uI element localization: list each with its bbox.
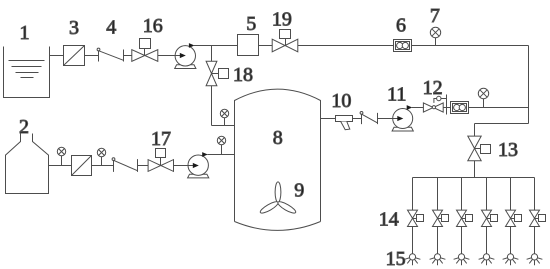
svg-text:3: 3 — [69, 17, 79, 39]
label 11 — [387, 84, 406, 106]
wire tank T8 to strainer 10 — [321, 118, 336, 120]
wire drop 2 upper — [437, 178, 439, 211]
valve 16 (control valve with actuator) — [132, 39, 158, 62]
wire riser elbow to valve 13 — [475, 124, 529, 137]
pump 11 inlet arrow — [393, 116, 404, 121]
wire valve13 to manifold — [474, 161, 476, 178]
label 19 — [272, 9, 292, 31]
label 18 — [233, 64, 253, 86]
wire F3 to check valve V4 — [85, 55, 99, 57]
wire drop 1 upper — [412, 178, 414, 211]
svg-text:15: 15 — [386, 248, 406, 269]
gauge 7 (pressure gauge) — [430, 27, 440, 37]
label 16 — [143, 15, 163, 37]
valve 14-6 (spray branch valve) — [530, 210, 546, 226]
svg-text:1: 1 — [20, 22, 30, 44]
label 6 — [396, 15, 406, 37]
wire drop 4 upper — [486, 178, 488, 211]
label 3 — [69, 17, 79, 39]
gauge GE stem — [483, 98, 485, 107]
liquid level lines in tank T1 — [9, 61, 45, 78]
label 12 — [423, 77, 443, 99]
svg-text:19: 19 — [272, 9, 292, 31]
wire flowmeter to riser — [469, 107, 529, 109]
wire valve18 down to tank T8 — [212, 86, 235, 126]
svg-text:17: 17 — [151, 128, 171, 150]
pump P1 outlet arrow — [189, 43, 195, 48]
svg-text:5: 5 — [246, 13, 256, 35]
svg-text:14: 14 — [379, 209, 399, 231]
wire tank1 to filter F3 — [50, 55, 64, 57]
wire VE to pump 11 — [378, 118, 401, 120]
gauge GA (pressure gauge) — [57, 147, 65, 155]
gauge GE (pressure gauge) — [478, 88, 488, 98]
svg-text:4: 4 — [106, 17, 116, 39]
filter FB (square with diagonal) — [72, 156, 92, 176]
wire drop 6 upper — [534, 178, 536, 211]
stirrer 9 (three-blade impeller) — [259, 182, 297, 215]
svg-text:10: 10 — [331, 90, 351, 112]
filter F3 (square with diagonal) — [64, 46, 85, 66]
valve 17 (control valve with actuator) — [148, 149, 173, 172]
strainer 10 (Y-strainer) — [336, 116, 353, 130]
gauge GA stem — [61, 156, 63, 166]
gauge GC stem — [221, 145, 223, 155]
wire drop 3 lower — [461, 227, 463, 254]
wire drop 5 lower — [510, 227, 512, 254]
wire pump11 to valve 12 — [412, 107, 424, 109]
wire drop 2 lower — [437, 227, 439, 254]
wire VC to valve 17 — [138, 165, 149, 167]
valve 18 (vertical valve with side box) — [206, 61, 228, 86]
svg-text:7: 7 — [430, 5, 440, 27]
label 9 — [294, 180, 304, 202]
valve 12 (valve with pilot loop) — [423, 96, 446, 112]
label 5 — [246, 13, 256, 35]
wire valve19 to flowmeter 6 — [298, 45, 394, 47]
wire strainer10 to check valve VE — [353, 118, 362, 120]
valve 14-5 (spray branch valve) — [506, 210, 522, 226]
nozzle 15-5 (spray nozzle) — [503, 254, 519, 265]
wire tick to flowmeter F2 — [443, 107, 450, 109]
label 13 — [498, 139, 518, 161]
gauge G4 stem — [224, 118, 226, 126]
gauge GB (pressure gauge) — [97, 148, 105, 156]
wire drop 4 lower — [486, 227, 488, 254]
valve 14-1 (spray branch valve) — [408, 210, 424, 226]
valve 14-3 (spray branch valve) — [457, 210, 473, 226]
pump P1 inlet arrow — [175, 53, 186, 58]
label 1 — [20, 22, 30, 44]
label 7 — [430, 5, 440, 27]
label 17 — [151, 128, 171, 150]
svg-text:8: 8 — [273, 127, 283, 149]
wire right riser down — [528, 46, 530, 124]
node junction above valve 18 — [211, 46, 213, 62]
pump P2 inlet arrow — [188, 163, 199, 168]
valve 13 (vertical valve with side box) — [468, 136, 491, 161]
tank T1 (open water tank) — [4, 47, 50, 98]
wire box5 to valve 19 — [259, 45, 273, 47]
svg-text:6: 6 — [396, 15, 406, 37]
wire V4 to valve 16 — [123, 55, 132, 57]
nozzle 15-6 (spray nozzle) — [527, 254, 543, 265]
wire pump P2 to tank T8 — [207, 154, 234, 156]
wire FB to check valve VC — [92, 165, 114, 167]
wire pump P1 outlet to box 5 — [194, 45, 238, 47]
pump 11 — [392, 109, 413, 132]
valve 14-4 (spray branch valve) — [482, 210, 498, 226]
pump 11 outlet arrow — [407, 105, 413, 110]
nozzle 15-2 (spray nozzle) — [430, 254, 446, 265]
wire drop 5 upper — [510, 178, 512, 211]
pump P2 outlet arrow — [202, 152, 208, 157]
check valve V4 — [97, 48, 123, 61]
svg-text:9: 9 — [294, 180, 304, 202]
label 14 — [379, 209, 399, 231]
wire drop 6 lower — [534, 227, 536, 254]
svg-text:11: 11 — [387, 84, 406, 106]
wire tank2 to filter FB — [49, 165, 72, 167]
wire drop 3 upper — [461, 178, 463, 211]
check valve VC — [112, 158, 137, 172]
gauge 7 stem — [435, 37, 437, 45]
label 2 — [19, 116, 29, 138]
flowmeter 6 — [394, 40, 412, 52]
flowmeter of line 12 — [451, 102, 469, 114]
label 10 — [331, 90, 351, 112]
valve 19 (control valve with actuator) — [272, 30, 298, 52]
box 5 (conditioning unit) — [238, 35, 259, 56]
svg-text:12: 12 — [423, 77, 443, 99]
wire valve16 to pump P1 — [158, 55, 183, 57]
tank T2 (carboy bottle) — [6, 134, 49, 194]
nozzle 15-4 (spray nozzle) — [479, 254, 495, 265]
pump P1 — [175, 46, 196, 69]
svg-text:18: 18 — [233, 64, 253, 86]
nozzle 15-3 (spray nozzle) — [454, 254, 470, 265]
svg-text:13: 13 — [498, 139, 518, 161]
svg-text:16: 16 — [143, 15, 163, 37]
pump P2 — [188, 155, 209, 178]
gauge G4 (pressure gauge) — [220, 109, 228, 117]
label 8 — [273, 127, 283, 149]
tank T8 (stirred vessel) — [235, 89, 321, 230]
pipe break tick after valve 12 — [446, 95, 448, 115]
valve 14-2 (spray branch valve) — [433, 210, 449, 226]
wire flowmeter6 to corner — [412, 45, 529, 47]
manifold header pipe — [413, 177, 535, 179]
svg-text:2: 2 — [19, 116, 29, 138]
label 15 — [386, 248, 406, 269]
wire valve17 to pump P2 — [174, 165, 197, 167]
gauge GB stem — [101, 157, 103, 166]
gauge GC (pressure gauge) — [217, 136, 225, 144]
check valve VE — [360, 112, 377, 125]
wire drop 1 lower — [412, 227, 414, 254]
nozzle 15-1 (spray nozzle) — [405, 254, 421, 265]
label 4 — [106, 17, 116, 39]
